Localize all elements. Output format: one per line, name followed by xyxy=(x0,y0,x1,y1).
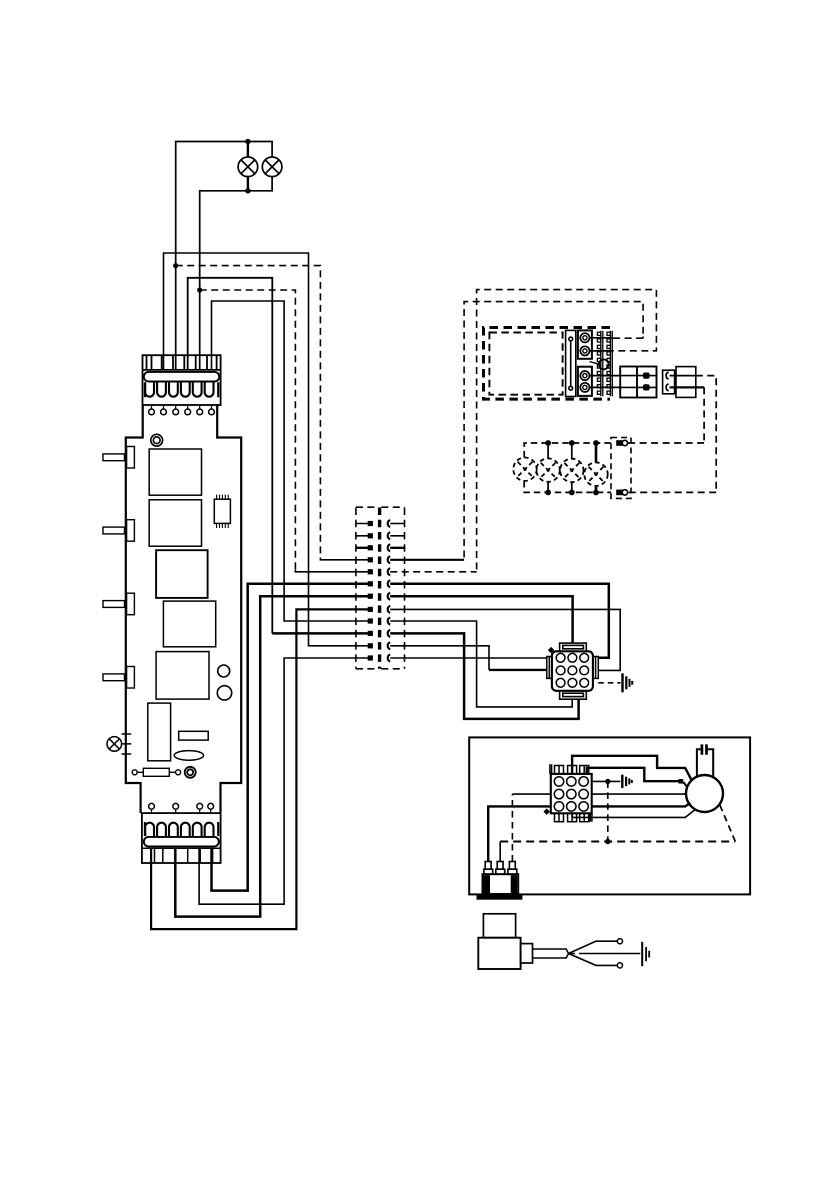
lamp L1 xyxy=(238,157,258,177)
meter lamp 2 leads xyxy=(547,443,549,492)
wire row7 to CN4 top xyxy=(390,596,572,643)
wire terminal2a to fuse xyxy=(589,375,620,377)
connector CN2 sockets xyxy=(145,822,218,836)
ground symbol at CN4 xyxy=(623,673,633,692)
board mount ring xyxy=(151,434,163,446)
wire CN2 pin3 to row7 xyxy=(175,596,368,916)
wire row11 to CN4 left tab xyxy=(390,646,489,670)
connector strip CN3 female housing xyxy=(380,507,405,669)
fuse block xyxy=(620,367,656,398)
connector CN4 latch mark xyxy=(548,647,555,654)
wire row9 to CN4 bottom xyxy=(390,621,572,707)
fuse 1 xyxy=(620,373,656,379)
harness plug terminal 1 xyxy=(666,372,669,379)
CN3 row 6 pin pair xyxy=(368,580,391,587)
junction dot kill line xyxy=(605,839,610,844)
bulb terminal 2b xyxy=(580,383,589,392)
ground symbol spark xyxy=(642,942,649,966)
connector CN2 pin circles xyxy=(149,803,214,813)
connector CN5 body xyxy=(551,774,592,813)
connector CN2 body xyxy=(142,813,221,863)
wire pin2 to row11 xyxy=(164,253,369,646)
connector CN4 right tab xyxy=(593,657,598,679)
junction dots lamp 4 xyxy=(593,440,599,446)
wire CN4 ground (dashed) xyxy=(598,682,620,684)
wire fuse2 through plug xyxy=(670,386,705,388)
junction dot ground line xyxy=(605,779,610,784)
wire lamp bottom feed from pin5 xyxy=(200,177,272,370)
junction dots lamp 3 xyxy=(569,440,575,446)
wire row8 to CN4 right tab xyxy=(390,609,620,670)
wire terminal1b to harness xyxy=(589,350,612,352)
wire coil pin1 to CN5 xyxy=(488,806,551,861)
junction dot pin5 branch xyxy=(197,287,202,292)
CN3 row 12 pin pair xyxy=(368,655,391,662)
comb connector strip 2 xyxy=(607,331,612,397)
connector CN5 pins 3x3 xyxy=(554,777,588,811)
wire plug center to ground xyxy=(570,953,584,955)
bulb terminal 1a xyxy=(580,333,589,342)
CN3 row 4 pin pair xyxy=(368,556,391,563)
connector CN2 lower band xyxy=(142,848,221,863)
connector CN1 retainer bar xyxy=(144,372,220,382)
wire CN5 top-right to magneto xyxy=(587,768,679,781)
bulb terminal 1b xyxy=(580,346,589,355)
wire coil pin3 to CN5 xyxy=(512,793,550,795)
spark coil coupler xyxy=(521,944,533,963)
CN3 row 7 pin pair xyxy=(368,593,391,600)
wire row5 to regulator (dashed harness) xyxy=(390,571,476,573)
wire row12 to CN4 left tab xyxy=(390,657,547,659)
wire terminal1a to harness xyxy=(589,337,612,339)
board pad circle B xyxy=(217,686,231,700)
relay K3 xyxy=(156,550,208,598)
junction dot lamp top xyxy=(245,139,250,144)
meter lamp 3 xyxy=(560,459,583,482)
connector CN1 sockets xyxy=(145,382,218,397)
dashed wire kill circuit horizontal xyxy=(500,841,735,843)
bulb holder block 1 xyxy=(578,330,592,358)
relay K1 xyxy=(149,449,201,495)
meter lamp 4 leads xyxy=(595,443,598,492)
board terminal tab 1 xyxy=(103,447,134,469)
relay K2 xyxy=(149,500,201,546)
dashed wire fuse1 to lamp rail bottom xyxy=(628,376,717,493)
meter body (inner dashed box) xyxy=(489,333,562,395)
wire fuse1 through plug xyxy=(670,375,696,377)
CN3 row 1 pin pair xyxy=(356,520,405,527)
meter side plate xyxy=(566,330,576,396)
connector CN4 pins 3x3 xyxy=(556,653,588,687)
bullet connector bottom xyxy=(616,490,627,496)
wire row10 to CN4 bottom xyxy=(390,633,578,719)
board ring pad xyxy=(185,767,196,778)
board terminal tab 3 xyxy=(103,593,134,615)
wire pin6 to row9 xyxy=(212,301,369,621)
spark coil secondary block xyxy=(483,914,515,938)
CN3 row 11 pin pair xyxy=(368,642,391,649)
junction dot lamp bottom xyxy=(245,188,250,193)
dashed wire fuse2 to lamp rail top xyxy=(628,387,705,443)
meter lamp 4 xyxy=(584,463,607,486)
connector CN4 top tab xyxy=(560,643,587,651)
meter lamp 2 xyxy=(536,458,559,481)
connector CN1 body xyxy=(143,355,221,405)
dashed wire to magneto pickup xyxy=(720,804,736,841)
condenser C2 xyxy=(697,744,713,777)
lamp L1 leads xyxy=(247,142,249,191)
bullet connector top xyxy=(616,440,627,446)
capacitor C1 xyxy=(148,703,171,761)
spark coil main body xyxy=(478,938,520,969)
wire lamp top feed from pin3 xyxy=(176,142,272,370)
board pad circle A xyxy=(218,665,230,677)
connector CN5 latch mark xyxy=(543,808,550,815)
wire plug terminal bottom xyxy=(569,954,618,966)
meter lamp bottom rail (dashed) xyxy=(524,481,611,492)
ignition coil pins xyxy=(484,862,517,875)
connector strip CN3 male housing xyxy=(356,507,378,669)
meter lamp 3 leads xyxy=(571,443,573,492)
CN3 row 8 pin pair xyxy=(368,606,391,613)
harness socket xyxy=(676,367,696,398)
dashed wire coil pin3 xyxy=(511,794,513,861)
dashed wire branch pin3 to row4 xyxy=(176,266,321,558)
fuse 2 xyxy=(620,384,656,390)
dashed wire kill circuit vertical xyxy=(607,781,609,841)
relay K4 xyxy=(163,601,215,647)
CN3 row 5 pin pair xyxy=(368,568,391,575)
wire CN5 top-row-right to ground xyxy=(592,780,621,782)
control unit board outline xyxy=(126,405,143,813)
wire CN5 mid-right to magneto xyxy=(592,793,686,795)
meter lamp connector box (dashed) xyxy=(611,438,631,499)
meter knob circle xyxy=(599,360,609,370)
CN3 row 2 pin pair xyxy=(356,532,405,539)
junction dot pin3 branch xyxy=(173,263,178,268)
bulb terminal 2a xyxy=(580,371,589,380)
connector CN1 pin circles xyxy=(149,405,215,415)
connector CN4 bottom tab xyxy=(560,691,587,699)
board indicator lamp xyxy=(107,734,131,754)
magneto flywheel xyxy=(686,775,723,812)
dashed wire branch pin5 to row5 xyxy=(200,290,296,570)
CN3 row 9 pin pair xyxy=(368,618,391,625)
resistor R1 xyxy=(132,768,180,776)
ignition coil body xyxy=(483,874,519,894)
connector CN4 left tab xyxy=(547,657,552,679)
wire CN5 top-center to magneto xyxy=(572,756,692,780)
IC U1 xyxy=(214,495,230,528)
component ellipse xyxy=(174,751,203,761)
board terminal tab 4 xyxy=(103,667,134,689)
CN3 row 3 pin pair xyxy=(356,544,406,551)
ignition system box xyxy=(469,737,750,894)
wire row4 to regulator (dashed harness) xyxy=(390,559,464,561)
wire plug terminal top xyxy=(569,941,618,953)
wire pin4 to row10 xyxy=(188,278,273,634)
wire coil pin2 to kill line xyxy=(499,842,501,862)
wire CN2 pin1 to row8 xyxy=(151,609,368,929)
spark plug cable xyxy=(533,949,569,958)
CN3 row 10 pin pair xyxy=(368,630,391,637)
connector CN2 retainer bar xyxy=(144,837,219,847)
wire terminal2b to fuse xyxy=(589,386,620,388)
connector CN4 body xyxy=(552,651,593,691)
wire CN2 pin6 to row6 xyxy=(212,584,369,891)
comb connector strip 1 xyxy=(597,331,602,397)
wire CN5 bottom-right to magneto xyxy=(592,803,691,806)
harness plug xyxy=(663,370,675,394)
component R small rect xyxy=(179,731,209,740)
connector CN5 bottom tabs xyxy=(555,813,592,821)
harness plug terminal 2 xyxy=(666,384,669,391)
ground symbol in box xyxy=(622,775,632,788)
meter lamp top rail (dashed) xyxy=(524,443,611,457)
ignition coil base xyxy=(477,894,523,900)
meter lamp 1 xyxy=(513,458,536,481)
wire CN5 bottom-center to magneto xyxy=(572,809,695,817)
lamp L2 xyxy=(262,157,282,177)
meter assembly outline (dashed box) xyxy=(484,328,611,400)
terminal square xyxy=(679,779,684,784)
junction dots lamp 2 xyxy=(545,440,551,446)
wire row6 to CN4 right tab xyxy=(390,584,609,658)
relay K5 xyxy=(156,652,209,700)
board terminal tab 2 xyxy=(103,520,134,542)
bulb holder block 2 xyxy=(578,367,592,396)
connector CN5 top tabs xyxy=(550,764,589,774)
wire CN2 pin5 to row12 xyxy=(199,658,368,904)
